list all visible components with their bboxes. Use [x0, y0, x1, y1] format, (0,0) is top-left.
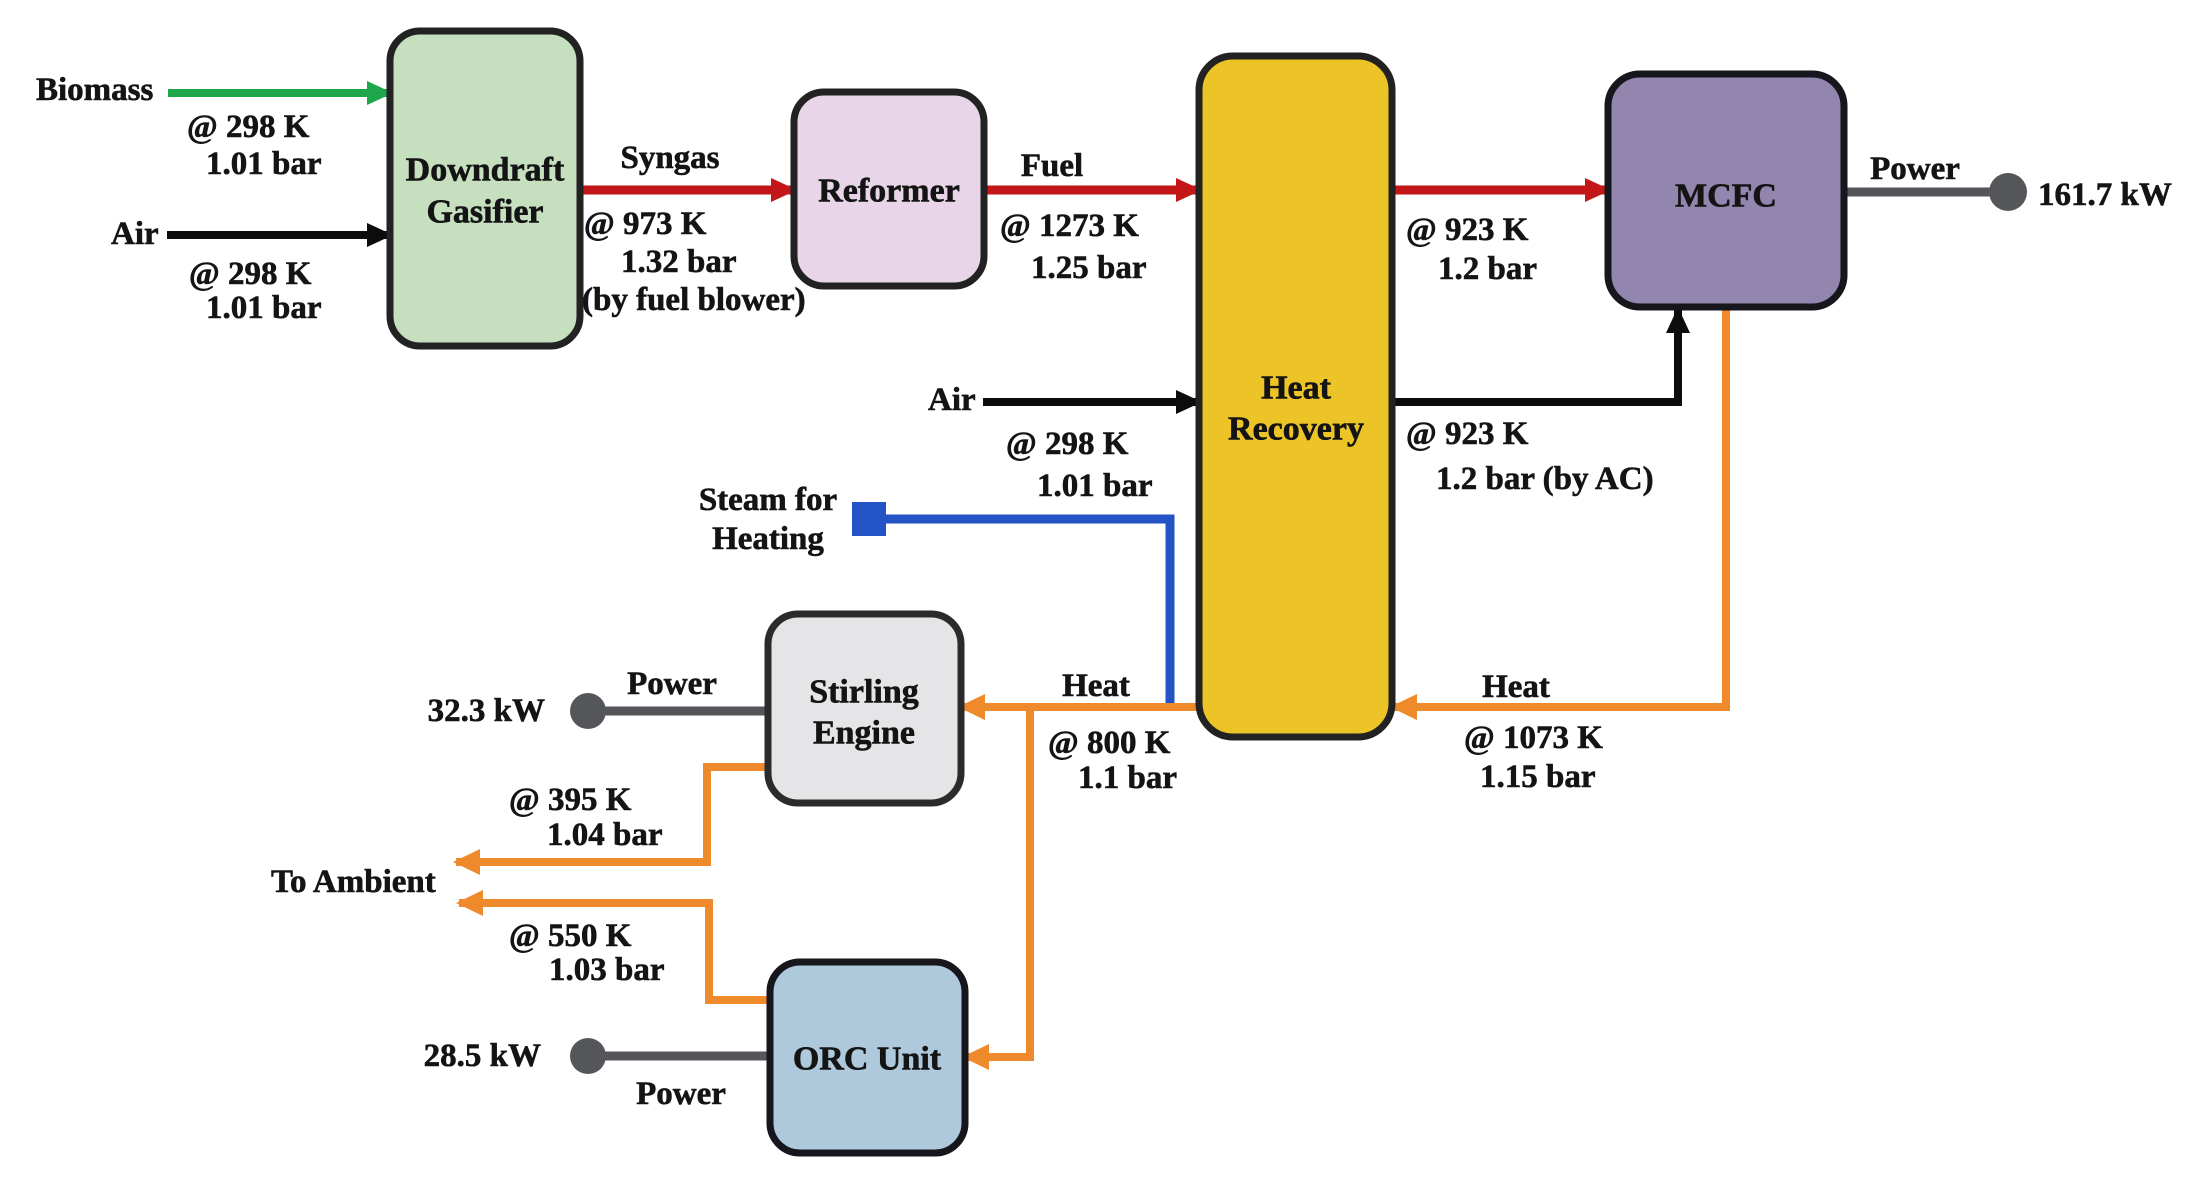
- svg-text:32.3 kW: 32.3 kW: [428, 693, 545, 729]
- wire syngas red arrow: [578, 186, 794, 195]
- svg-text:1.32 bar: 1.32 bar: [621, 244, 737, 280]
- svg-text:@ 800 K: @ 800 K: [1048, 725, 1171, 761]
- block heat recovery: [1199, 56, 1392, 737]
- svg-text:ORC Unit: ORC Unit: [793, 1041, 942, 1078]
- wire MCFC power gray: [1844, 188, 1990, 197]
- svg-text:@ 395 K: @ 395 K: [509, 782, 632, 818]
- svg-text:@ 923 K: @ 923 K: [1406, 212, 1529, 248]
- svg-text:Gasifier: Gasifier: [426, 194, 543, 231]
- svg-text:Power: Power: [636, 1076, 726, 1112]
- svg-text:@ 923 K: @ 923 K: [1406, 416, 1529, 452]
- wire stirling exhaust orange to ambient: [456, 767, 768, 862]
- block reformer: [794, 92, 984, 286]
- svg-text:1.1 bar: 1.1 bar: [1078, 760, 1177, 796]
- block stirling engine: [768, 614, 961, 803]
- wire steam blue line: [886, 519, 1170, 703]
- svg-text:1.01 bar: 1.01 bar: [206, 146, 322, 182]
- svg-text:Air: Air: [111, 216, 159, 252]
- svg-text:Heat: Heat: [1062, 668, 1130, 704]
- svg-text:1.01 bar: 1.01 bar: [206, 290, 322, 326]
- svg-text:Fuel: Fuel: [1021, 148, 1083, 184]
- svg-text:1.04 bar: 1.04 bar: [547, 817, 663, 853]
- wire ORC power gray: [588, 1052, 770, 1061]
- wire heat-recovery air to MCFC black elbow: [1392, 310, 1678, 402]
- block MCFC: [1608, 74, 1844, 307]
- svg-text:Downdraft: Downdraft: [406, 152, 565, 189]
- svg-text:Recovery: Recovery: [1228, 411, 1364, 448]
- svg-text:(by fuel blower): (by fuel blower): [582, 282, 806, 318]
- svg-text:MCFC: MCFC: [1675, 178, 1777, 215]
- svg-text:Heat: Heat: [1261, 370, 1332, 407]
- wire MCFC heat orange to heat-recovery: [1393, 307, 1726, 707]
- svg-text:Engine: Engine: [813, 715, 915, 752]
- svg-text:@ 973 K: @ 973 K: [584, 206, 707, 242]
- svg-text:161.7 kW: 161.7 kW: [2038, 177, 2172, 213]
- block ORC unit: [770, 962, 965, 1153]
- wire heat-recovery to MCFC red arrow: [1390, 186, 1608, 195]
- svg-text:Reformer: Reformer: [818, 173, 960, 210]
- node stirling power circle: [570, 693, 606, 729]
- wire heat orange heat-recovery to stirling: [961, 703, 1199, 711]
- wire heat orange branch down to ORC: [965, 707, 1030, 1057]
- svg-text:1.15 bar: 1.15 bar: [1480, 759, 1596, 795]
- svg-text:Air: Air: [928, 382, 976, 418]
- svg-text:Biomass: Biomass: [36, 72, 154, 108]
- node steam blue square: [852, 502, 886, 536]
- svg-text:Syngas: Syngas: [620, 140, 719, 176]
- svg-text:Power: Power: [1870, 151, 1960, 187]
- svg-text:1.03 bar: 1.03 bar: [549, 952, 665, 988]
- wire air top black arrow: [167, 231, 390, 239]
- svg-text:1.25 bar: 1.25 bar: [1031, 250, 1147, 286]
- svg-text:@ 1073 K: @ 1073 K: [1464, 720, 1603, 756]
- svg-text:@ 298 K: @ 298 K: [189, 256, 312, 292]
- wire ORC exhaust orange to ambient: [459, 903, 770, 1000]
- svg-text:To Ambient: To Ambient: [271, 864, 436, 900]
- wire fuel red arrow: [982, 186, 1199, 195]
- node MCFC power circle: [1989, 173, 2027, 211]
- svg-text:@ 1273 K: @ 1273 K: [1000, 208, 1139, 244]
- wire air middle black arrow: [983, 398, 1199, 406]
- node ORC power circle: [570, 1038, 606, 1074]
- svg-text:Heating: Heating: [712, 521, 824, 557]
- svg-text:Heat: Heat: [1482, 669, 1550, 705]
- svg-text:1.2 bar: 1.2 bar: [1438, 251, 1537, 287]
- svg-text:1.01 bar: 1.01 bar: [1037, 468, 1153, 504]
- svg-text:28.5 kW: 28.5 kW: [424, 1038, 541, 1074]
- svg-text:Power: Power: [627, 666, 717, 702]
- wire biomass green arrow: [168, 89, 390, 97]
- block downdraft gasifier: [390, 31, 580, 346]
- svg-text:Steam for: Steam for: [699, 482, 837, 518]
- wire stirling power gray: [588, 707, 768, 716]
- svg-text:@ 298 K: @ 298 K: [1006, 426, 1129, 462]
- svg-text:Stirling: Stirling: [809, 674, 919, 711]
- svg-text:1.2 bar (by AC): 1.2 bar (by AC): [1436, 461, 1654, 497]
- svg-text:@ 298 K: @ 298 K: [187, 109, 310, 145]
- svg-text:@ 550 K: @ 550 K: [509, 918, 632, 954]
